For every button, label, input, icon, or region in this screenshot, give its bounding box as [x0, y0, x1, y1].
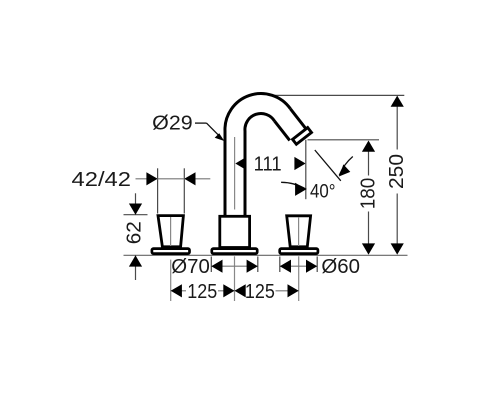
dimension line 42/42: [136, 178, 211, 180]
extension line diam60 left: [279, 257, 281, 273]
dimension 111 arrow left: [235, 157, 246, 170]
40-degree arc tail right: [339, 157, 353, 176]
left base plate: [152, 249, 190, 254]
top reference line: [269, 94, 405, 96]
center socle: [220, 216, 250, 247]
svg-text:40°: 40°: [310, 180, 336, 202]
outlet vertical extension line: [305, 140, 307, 199]
svg-text:125: 125: [187, 281, 217, 303]
leader diam29 horizontal: [195, 122, 207, 124]
dimension 111 arrow right: [294, 157, 305, 170]
right handle body: [287, 216, 311, 247]
extension line diam60 right: [316, 257, 318, 273]
dimension line 180 upper: [368, 142, 370, 176]
dimension line 250 lower: [396, 194, 398, 254]
svg-text:Ø29: Ø29: [152, 113, 193, 135]
arrow diam60 left: [280, 260, 291, 273]
svg-text:42/42: 42/42: [72, 169, 132, 191]
dimension 62 top tick: [124, 214, 148, 216]
baseline (countertop): [124, 254, 408, 256]
dimension line 125 right segment b: [276, 290, 299, 292]
svg-text:250: 250: [386, 154, 408, 189]
svg-text:125: 125: [245, 281, 275, 303]
svg-text:180: 180: [358, 178, 380, 210]
arrow 42/42 right: [184, 172, 195, 185]
arrow 62 bottom: [129, 255, 142, 266]
dimension line 125 left segment b: [218, 290, 235, 292]
40-degree arc tail left: [281, 182, 306, 189]
40-degree reference diagonal line: [315, 150, 341, 181]
center base plate: [212, 249, 257, 254]
centerline spout axis lower: [234, 256, 236, 301]
arrow 125 center-left: [223, 284, 234, 297]
extension line diam70 left: [210, 257, 212, 273]
dimension line 250 upper: [396, 97, 398, 150]
centerline right handle: [298, 217, 300, 246]
svg-text:Ø70: Ø70: [171, 256, 210, 278]
extension line 42/42 left: [157, 168, 159, 213]
extension line diam70 right: [257, 257, 259, 273]
arrow 62 top: [129, 204, 142, 215]
extension line 42/42 right: [183, 168, 185, 213]
dimension 62 upper tail: [135, 193, 137, 214]
centerline left handle: [170, 217, 172, 246]
arrow 125 center-right: [235, 284, 246, 297]
arrow 42/42 left: [146, 172, 157, 185]
arrow 180 top: [362, 141, 375, 152]
spout outer contour: [225, 94, 290, 215]
arrow 180 bottom: [362, 243, 375, 254]
svg-text:62: 62: [123, 221, 145, 244]
arrow 125 far-right: [288, 284, 299, 297]
dimension line diam70: [211, 265, 257, 267]
arrow diam60 right: [306, 260, 317, 273]
centerline left handle lower: [170, 260, 172, 301]
arrow 125 far-left: [171, 284, 182, 297]
arrow 250 bottom: [391, 243, 404, 254]
dimension line 125 right segment a: [235, 290, 245, 292]
left handle body: [158, 216, 183, 247]
centerline spout axis upper: [234, 137, 236, 210]
dimension line diam60: [280, 265, 317, 267]
dimension line 180 lower: [368, 212, 370, 254]
arrow 250 top: [391, 96, 404, 107]
dimension line 125 left segment a: [171, 290, 186, 292]
svg-text:Ø60: Ø60: [321, 256, 360, 278]
leader diam29 diagonal: [207, 123, 222, 138]
spout straight section and end cap: [275, 108, 312, 147]
leader diam29 arrowhead: [215, 133, 225, 141]
svg-text:111: 111: [254, 154, 282, 176]
40-degree arrow at diagonal: [339, 164, 350, 176]
centerline right handle lower: [298, 256, 300, 301]
arrow diam70 left: [211, 260, 222, 273]
right base plate: [280, 249, 318, 254]
dimension 62 lower tail: [135, 255, 137, 280]
outlet reference line: [308, 139, 380, 141]
arrow diam70 right: [247, 260, 258, 273]
40-degree arrow at extension line: [295, 183, 306, 196]
spout inner contour: [245, 114, 275, 215]
